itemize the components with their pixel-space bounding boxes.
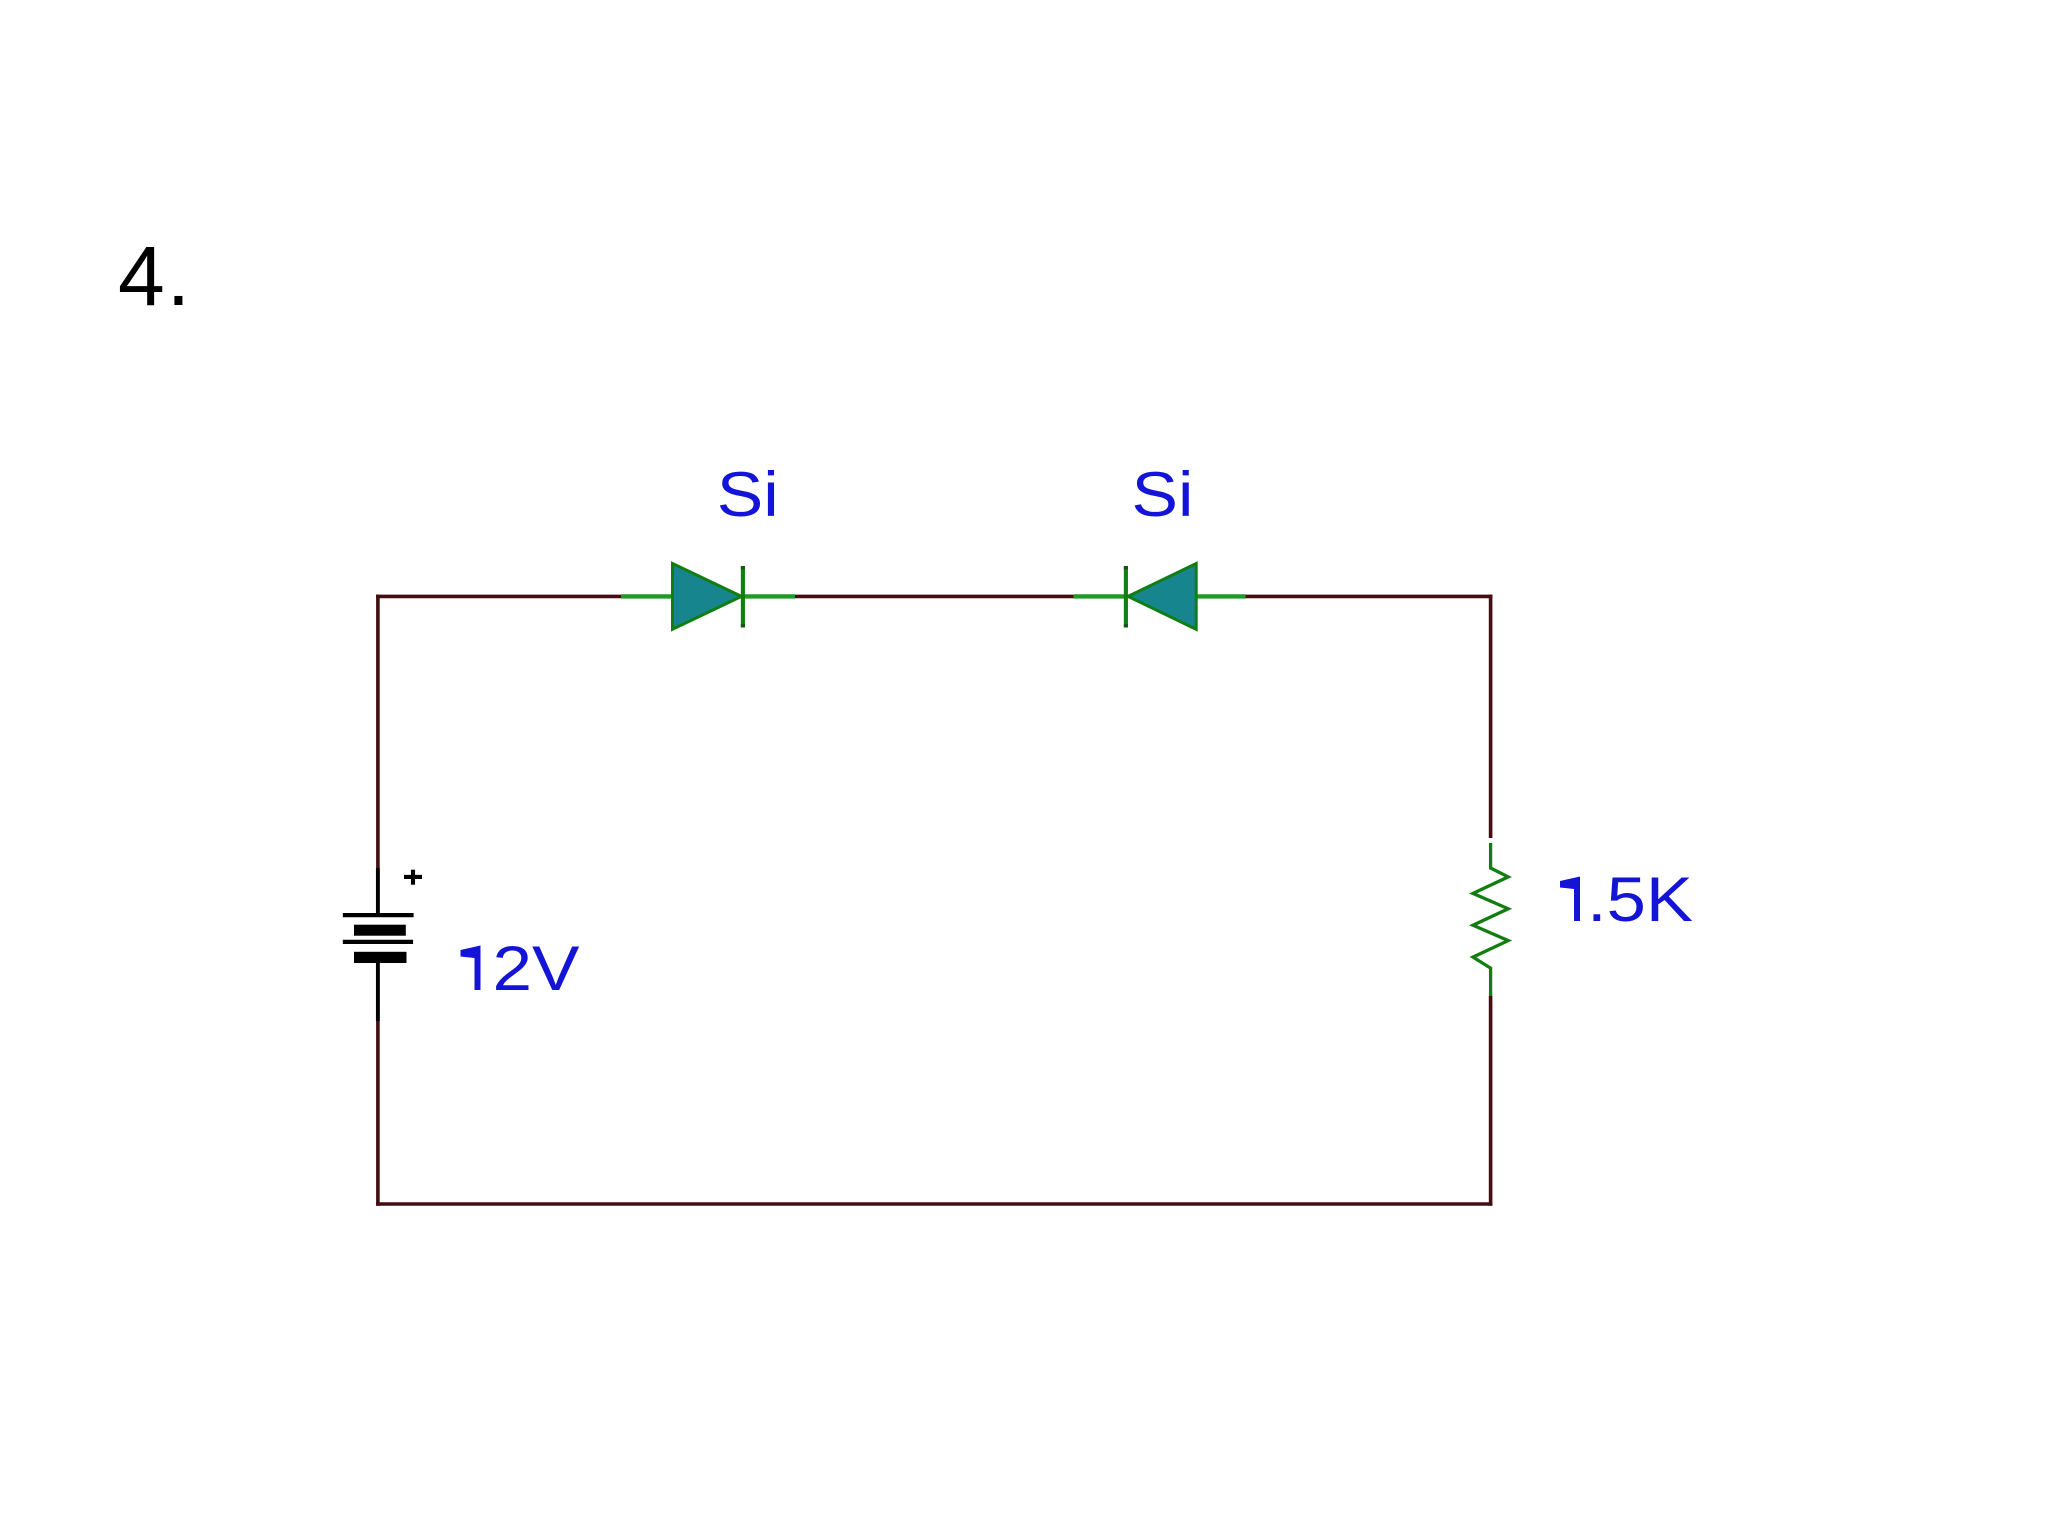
wire green lead, anode of D1 [621, 594, 673, 598]
svg-text:4.: 4. [118, 229, 192, 323]
label 12V, digit 1 drawn as Arial-style glyph (no foot) [461, 946, 481, 991]
wire bottom (maroon) [376, 1202, 1492, 1206]
battery long plate 2 [343, 940, 413, 944]
svg-text:.5K: .5K [1587, 865, 1693, 935]
svg-text:Si: Si [717, 460, 779, 530]
diode D1 (Si) triangle [673, 564, 742, 630]
wire green lead, cathode of D2 [1074, 594, 1124, 598]
wire right upper (maroon, to resistor) [1489, 595, 1493, 838]
wire left lower (maroon, battery - terminal) [376, 1021, 380, 1206]
battery V1: top lead (black) [376, 868, 380, 915]
diode D2 triangle [1128, 564, 1196, 630]
wire right lower (maroon, from resistor) [1489, 996, 1493, 1206]
resistor R1 zigzag [1473, 868, 1508, 968]
diode D1 cathode bar [741, 566, 745, 628]
battery long plate 1 [343, 913, 414, 917]
label 1.5K, digit 1 drawn as Arial-style glyph (no foot) [1560, 877, 1580, 922]
diode D2 (Si) cathode bar [1124, 566, 1128, 628]
wire green lead, cathode of D1 [745, 594, 795, 598]
svg-text:2V: 2V [493, 934, 580, 1004]
battery bottom lead (black) [376, 963, 380, 1021]
resistor R1 top lead (green) [1489, 843, 1492, 870]
battery thick bar 2 [354, 952, 407, 963]
battery thick bar 1 [354, 925, 406, 936]
wire left upper (maroon, battery + terminal) [376, 595, 380, 868]
battery plus sign [404, 875, 422, 879]
wire top (maroon) [376, 595, 1492, 599]
wire green lead, anode of D2 [1196, 594, 1246, 598]
resistor R1 bottom lead (green) [1489, 967, 1492, 996]
svg-text:Si: Si [1132, 460, 1194, 530]
